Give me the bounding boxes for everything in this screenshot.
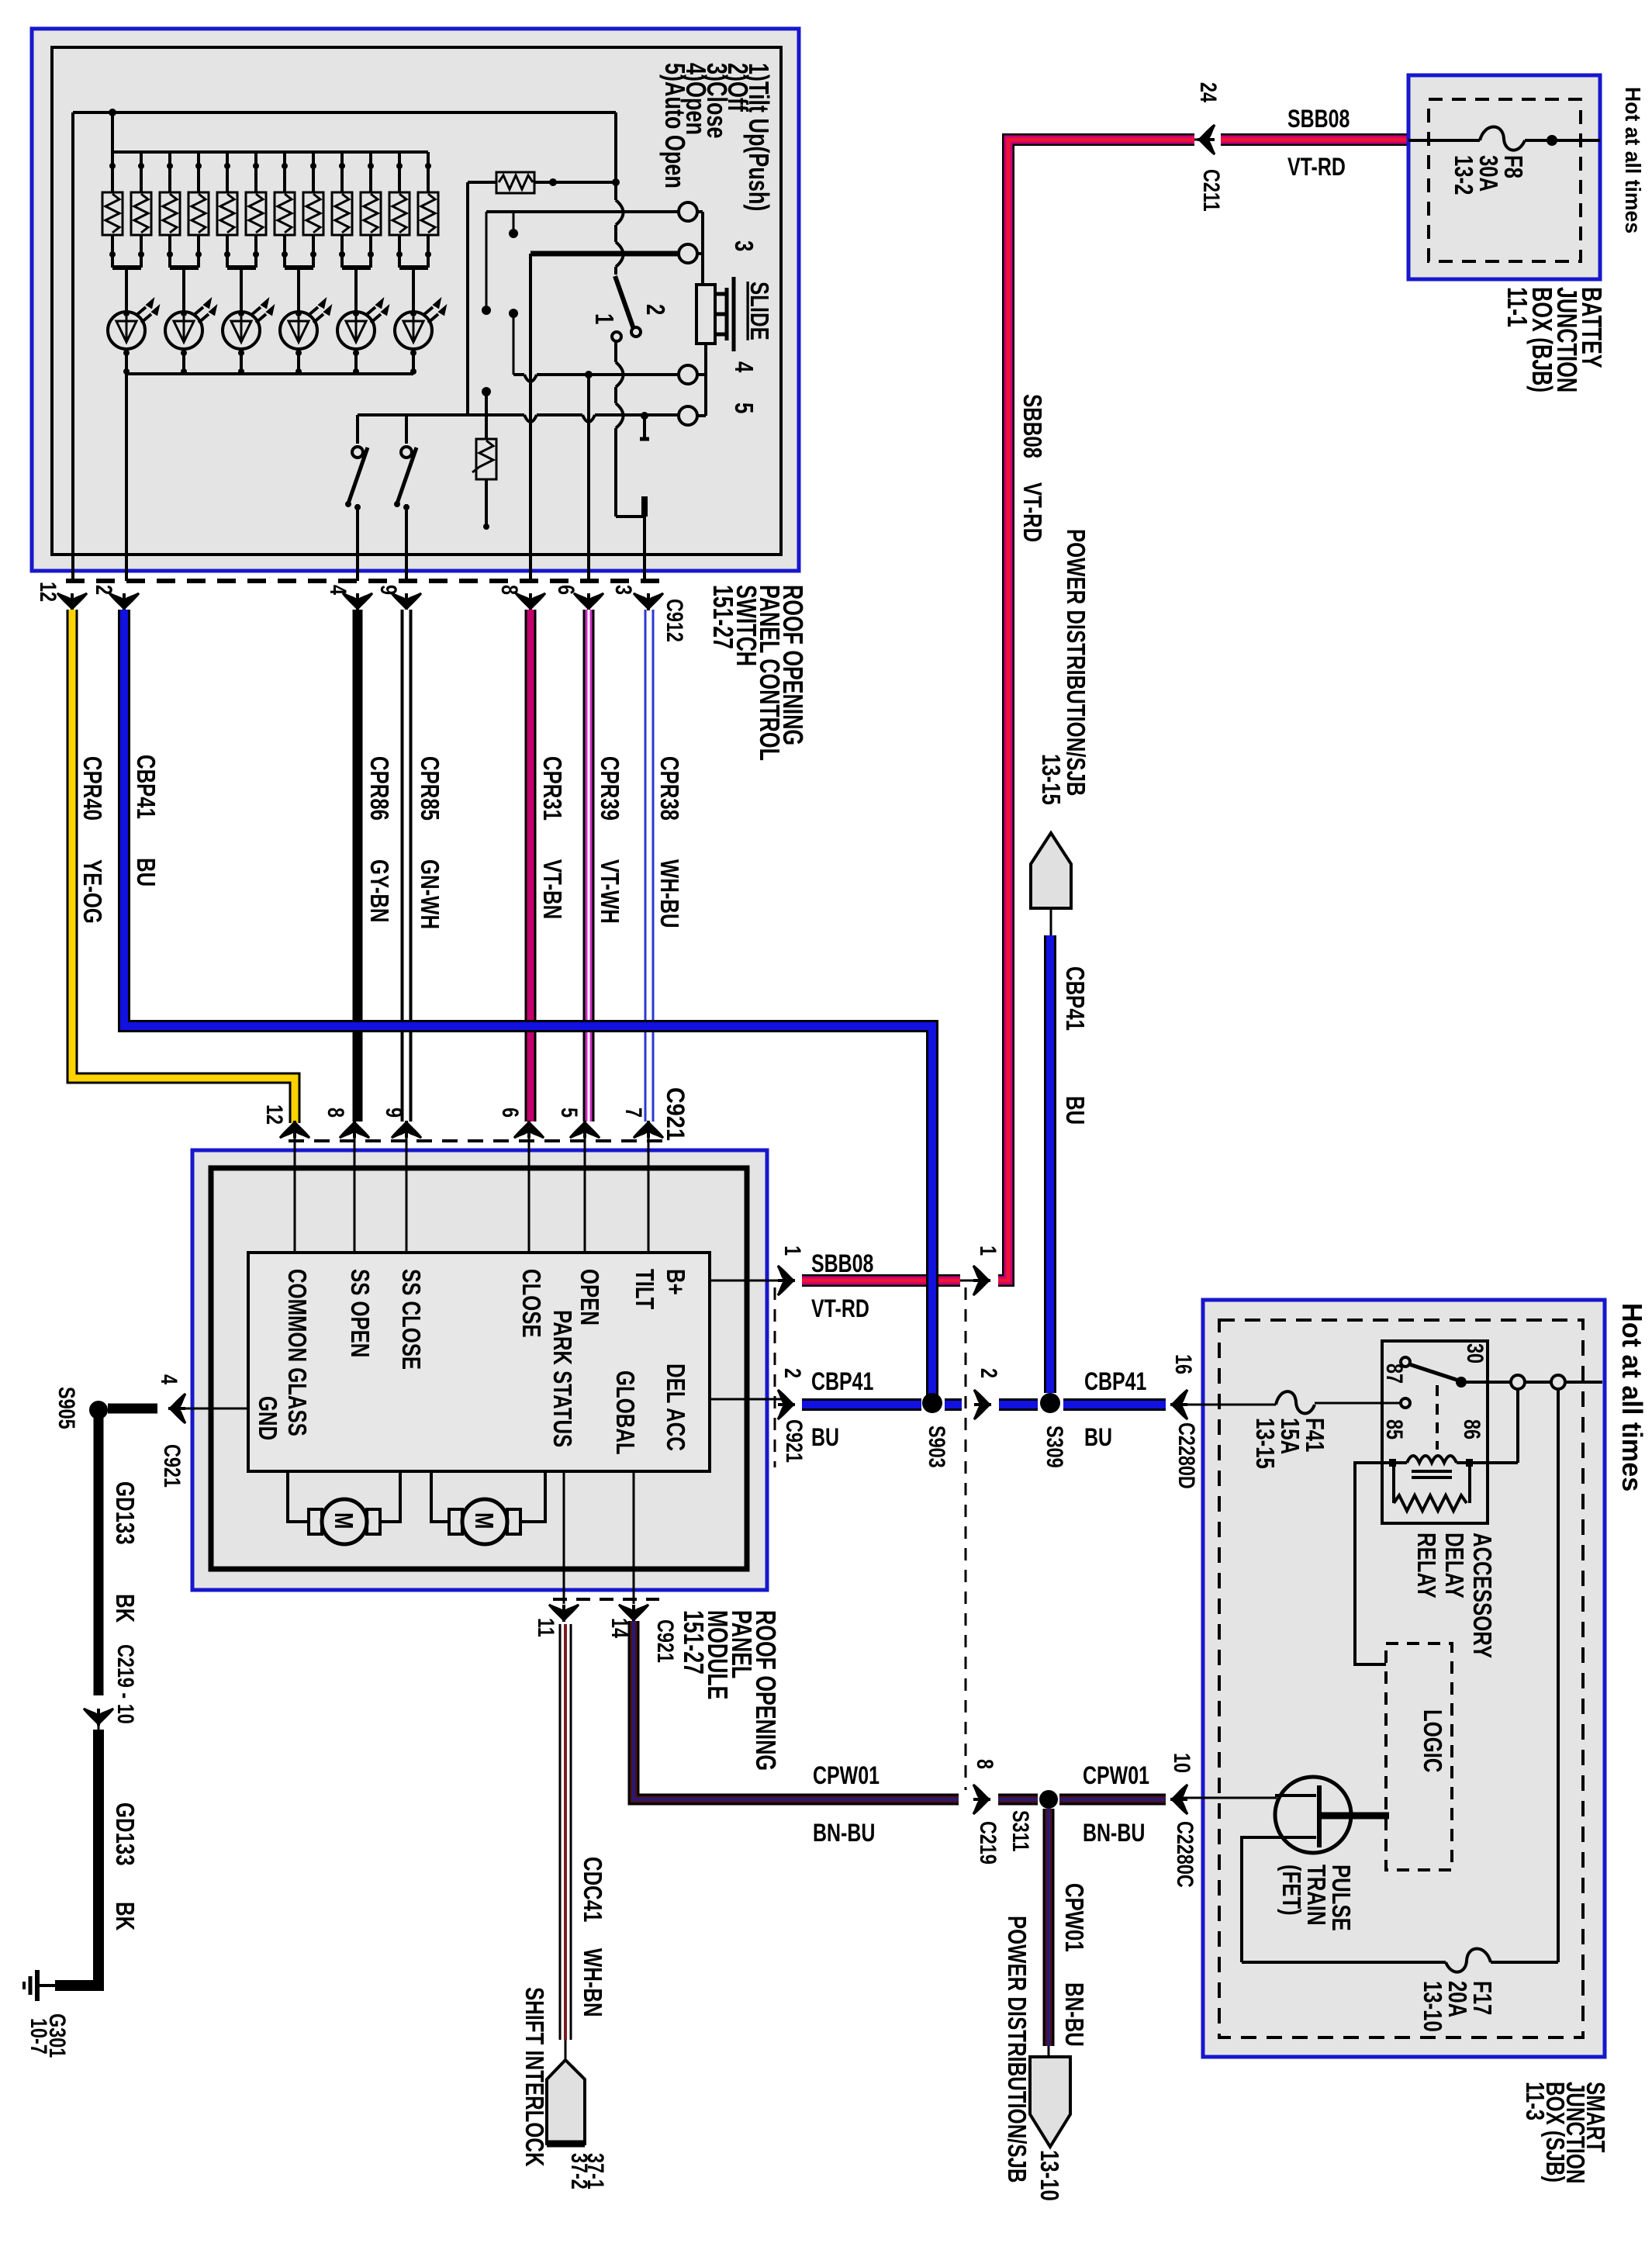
- svg-text:11: 11: [533, 1618, 558, 1637]
- connector C921 pin arrow x754: [570, 1121, 600, 1138]
- off-page arrow power distribution/SJB 13-10: [1030, 2057, 1070, 2147]
- svg-text:S905: S905: [54, 1387, 79, 1429]
- svg-text:BN-BU: BN-BU: [1083, 1820, 1145, 1847]
- svg-text:CBP41: CBP41: [1060, 966, 1089, 1031]
- svg-text:GD133: GD133: [110, 1802, 139, 1866]
- svg-text:86: 86: [1459, 1419, 1484, 1439]
- svg-text:5: 5: [556, 1108, 582, 1118]
- contact circle 3: [679, 244, 697, 263]
- wire LED3 stem: [240, 349, 243, 374]
- svg-text:7: 7: [620, 1108, 646, 1118]
- fuse F41 15A: [1182, 1391, 1401, 1413]
- svg-text:151-27: 151-27: [707, 585, 739, 649]
- svg-text:1: 1: [779, 1246, 805, 1256]
- wire top bus: [73, 111, 616, 114]
- svg-text:GY-BN: GY-BN: [365, 859, 393, 922]
- svg-text:BN-BU: BN-BU: [1059, 1982, 1088, 2047]
- svg-text:BU: BU: [131, 858, 160, 886]
- svg-text:C211: C211: [1198, 169, 1224, 212]
- svg-text:YE-OG: YE-OG: [78, 859, 106, 924]
- LED D5: [337, 300, 388, 349]
- svg-text:8: 8: [972, 1759, 997, 1769]
- svg-text:13-10: 13-10: [1418, 1981, 1446, 2032]
- wire SBB08 VT-RD to BJB: [1221, 133, 1410, 146]
- svg-text:13-2: 13-2: [1449, 155, 1477, 195]
- wire CPW01 seg2: [998, 1794, 1038, 1806]
- svg-text:S903: S903: [924, 1426, 949, 1468]
- svg-text:C921: C921: [781, 1419, 807, 1463]
- node S903: [922, 1393, 942, 1413]
- svg-text:4: 4: [325, 585, 351, 595]
- connector C921 pin arrow x524: [392, 1121, 421, 1138]
- node S311: [1039, 1790, 1058, 1809]
- svg-text:CPW01: CPW01: [813, 1762, 880, 1790]
- svg-text:CPR31: CPR31: [537, 756, 566, 821]
- wire blue feed: [125, 374, 128, 581]
- roof opening panel control switch box: [32, 29, 799, 571]
- svg-text:CPR38: CPR38: [655, 756, 683, 821]
- relay contact 87: [1401, 1398, 1410, 1408]
- svg-text:C921: C921: [662, 1087, 689, 1141]
- smart junction box SJB: [1203, 1300, 1605, 2057]
- connector C912 pin arrow x93: [57, 593, 87, 610]
- connector C921 bottom arrows: [549, 1605, 579, 1622]
- svg-text:PARK STATUS: PARK STATUS: [548, 1310, 576, 1447]
- svg-text:S309: S309: [1042, 1426, 1067, 1468]
- wire CDC41 WH-BN: [560, 1624, 571, 2060]
- relay switch arm: [1401, 1357, 1467, 1388]
- svg-text:GN-WH: GN-WH: [415, 859, 444, 929]
- node S905: [89, 1401, 108, 1419]
- connector C211: [1194, 139, 1210, 141]
- connector C912 pin arrow x160: [109, 593, 139, 610]
- connector C912 pin arrow x759: [574, 593, 603, 610]
- wire module bottom pin leads: [564, 1471, 634, 1604]
- svg-text:VT-WH: VT-WH: [595, 859, 624, 924]
- svg-text:12: 12: [35, 582, 60, 602]
- wire GD133 BK to S905: [108, 1404, 157, 1414]
- LED D3: [223, 300, 273, 349]
- svg-text:Hot at all times: Hot at all times: [1621, 87, 1646, 233]
- wire pair join 2: [170, 265, 199, 270]
- node S309: [1040, 1393, 1060, 1413]
- resistor R10: [361, 152, 381, 268]
- svg-text:VT-BN: VT-BN: [537, 859, 566, 919]
- wire CBP41 BU row seg2: [999, 1398, 1038, 1411]
- connector C912 pin arrow x524: [392, 593, 421, 610]
- svg-text:CLOSE: CLOSE: [517, 1269, 545, 1338]
- svg-text:SHIFT INTERLOCK: SHIFT INTERLOCK: [520, 1987, 548, 2167]
- svg-text:B+: B+: [661, 1269, 689, 1295]
- connector C912 pin arrow x836: [634, 593, 663, 610]
- svg-text:C912: C912: [662, 599, 687, 642]
- wire LED2 stem: [182, 349, 185, 374]
- svg-text:SBB08: SBB08: [811, 1250, 873, 1278]
- wire H483 to contact 4: [513, 373, 679, 376]
- svg-text:16: 16: [1170, 1354, 1196, 1374]
- wire LED5 stem: [354, 349, 358, 374]
- svg-text:BU: BU: [1084, 1424, 1112, 1452]
- logic block: [1386, 1643, 1452, 1870]
- svg-text:10-7: 10-7: [26, 2018, 51, 2055]
- wire V1 riser: [466, 182, 469, 415]
- svg-text:RELAY: RELAY: [1412, 1533, 1440, 1598]
- LED D1: [108, 300, 158, 349]
- wire V6 pin3 leg: [643, 517, 646, 581]
- resistor R9: [332, 152, 352, 268]
- svg-text:M: M: [469, 1512, 498, 1529]
- wire CPW01 seg3: [1059, 1794, 1166, 1806]
- wire CPR38 WH-BU: [645, 610, 653, 1121]
- svg-text:C2280C: C2280C: [1172, 1821, 1198, 1888]
- svg-text:GND: GND: [253, 1396, 282, 1440]
- svg-text:VT-RD: VT-RD: [811, 1295, 869, 1323]
- wire GND lead pin4: [180, 1408, 248, 1410]
- connector C921 pin arrow x836: [634, 1121, 663, 1138]
- svg-text:GD133: GD133: [110, 1481, 139, 1545]
- svg-text:6: 6: [553, 585, 579, 595]
- wire SBB08 VT-RD module segment: [802, 1274, 960, 1287]
- svg-text:11-3: 11-3: [1520, 2082, 1549, 2120]
- contact circle 5: [679, 406, 697, 425]
- svg-text:85: 85: [1381, 1419, 1407, 1439]
- svg-text:LOGIC: LOGIC: [1418, 1709, 1446, 1772]
- relay coil: [1389, 1456, 1473, 1477]
- svg-text:BN-BU: BN-BU: [813, 1820, 875, 1847]
- svg-text:9: 9: [375, 585, 401, 595]
- svg-text:BU: BU: [1060, 1096, 1089, 1125]
- dashed connector verticals: [774, 1287, 776, 1467]
- svg-text:C2280D: C2280D: [1173, 1422, 1199, 1489]
- wire H5 bus to contact 5: [358, 413, 679, 416]
- wire CBP41 BU row seg1: [802, 1398, 921, 1411]
- wire V5 bottom corner: [616, 515, 645, 518]
- wire LED bottom bus: [126, 372, 413, 375]
- svg-text:2: 2: [91, 585, 116, 595]
- wire GD133 BK lower: [55, 1730, 98, 1986]
- resistor R13 horizontal: [468, 172, 620, 193]
- connector C912 pin arrow x684: [516, 593, 545, 610]
- wire CPR39 VT-WH: [583, 610, 595, 1121]
- wire H3 to top contact: [486, 210, 679, 213]
- off-page arrow power distribution/SJB 13-15: [1031, 833, 1071, 908]
- svg-text:3: 3: [610, 585, 636, 595]
- LED D2: [165, 300, 216, 349]
- wire coil86 to hot: [1473, 1389, 1518, 1463]
- svg-text:C219: C219: [975, 1821, 1001, 1865]
- wire C2280C lead to FET: [1183, 1797, 1277, 1799]
- svg-text:2: 2: [641, 304, 669, 315]
- connector C921 dashed: [289, 1139, 665, 1142]
- connector C912 pin arrow x461: [343, 593, 372, 610]
- stub below contact5: [641, 412, 648, 420]
- svg-text:6: 6: [497, 1108, 523, 1118]
- svg-text:8: 8: [496, 585, 522, 595]
- wire pair join 3: [227, 265, 256, 270]
- resistor R7: [275, 152, 295, 268]
- module IC block: [248, 1253, 710, 1471]
- LED D6: [395, 300, 445, 349]
- svg-text:4: 4: [156, 1374, 181, 1384]
- motor M1: [288, 1471, 400, 1544]
- ground G301: [24, 1970, 55, 2001]
- switch arm contacts 1 2: [612, 276, 641, 341]
- switch SW-A pin4: [345, 415, 368, 581]
- svg-text:13-15: 13-15: [1250, 1418, 1279, 1469]
- off-page arrow shift interlock: [547, 2060, 585, 2144]
- wire CPW01 BN-BU pin14 run: [634, 1621, 959, 1799]
- resistor R14 vertical: [472, 387, 496, 530]
- connector C921 pin arrow x682: [514, 1121, 544, 1138]
- svg-text:C921: C921: [652, 1619, 678, 1663]
- connector C921 bottom dashed: [553, 1598, 659, 1601]
- svg-text:GLOBAL: GLOBAL: [610, 1370, 639, 1455]
- wire CBP41 BU row seg3: [1063, 1398, 1166, 1411]
- svg-text:37-2: 37-2: [566, 2153, 592, 2189]
- wire V4 pin6 leg: [587, 375, 590, 581]
- svg-text:DELAY: DELAY: [1439, 1533, 1468, 1598]
- resistor R8: [303, 152, 323, 268]
- svg-text:1: 1: [975, 1246, 1001, 1256]
- connector C219-10 arrow: [84, 1709, 113, 1726]
- svg-text:4: 4: [729, 361, 758, 373]
- wire pair join 5: [342, 265, 371, 270]
- svg-text:CPR86: CPR86: [365, 756, 393, 821]
- switch SW-B pin9: [394, 415, 416, 581]
- battery junction box BJB: [1408, 75, 1600, 279]
- svg-text:BK: BK: [110, 1902, 139, 1931]
- wire B+ lead to pin1: [710, 1280, 782, 1282]
- resistor R6: [246, 152, 266, 268]
- wire coil85 to logic: [1355, 1463, 1389, 1664]
- svg-text:1: 1: [589, 313, 618, 324]
- svg-text:WH-BN: WH-BN: [578, 1948, 607, 2017]
- svg-text:CBP41: CBP41: [811, 1368, 873, 1396]
- svg-text:CDC41: CDC41: [578, 1857, 607, 1922]
- svg-text:VT-RD: VT-RD: [1287, 154, 1346, 181]
- wire GD133 BK upper: [94, 1415, 104, 1695]
- svg-text:M: M: [329, 1512, 358, 1529]
- resistor R3: [160, 152, 180, 268]
- wire DEL ACC lead pin2: [710, 1398, 782, 1401]
- svg-text:S311: S311: [1007, 1810, 1033, 1851]
- contact circle 4: [679, 365, 697, 384]
- svg-text:CBP41: CBP41: [1084, 1368, 1146, 1396]
- svg-text:13-10: 13-10: [1035, 2150, 1063, 2201]
- svg-text:DEL ACC: DEL ACC: [661, 1363, 689, 1451]
- wire jumpers at contacts: [697, 212, 703, 285]
- wire SBB08 VT-RD main run: [998, 140, 1194, 1280]
- wire CPW01 BN-BU S311 down: [1043, 1809, 1055, 2046]
- svg-text:COMMON GLASS: COMMON GLASS: [282, 1269, 311, 1436]
- resistor R2: [131, 152, 151, 268]
- connector C912 dashed: [66, 579, 665, 583]
- svg-text:9: 9: [381, 1108, 406, 1118]
- resistor R4: [188, 152, 209, 268]
- svg-text:BU: BU: [811, 1424, 839, 1452]
- connector C921 pin arrow x380: [280, 1121, 309, 1138]
- svg-text:ACCESSORY: ACCESSORY: [1467, 1533, 1496, 1658]
- wire V2 stub: [486, 212, 488, 306]
- svg-text:TILT: TILT: [630, 1269, 658, 1309]
- svg-text:CBP41: CBP41: [131, 755, 160, 819]
- SLIDE selector: [696, 277, 734, 351]
- fuse F17 20A: [1242, 1948, 1558, 1972]
- svg-text:SBB08: SBB08: [1018, 394, 1046, 458]
- svg-text:POWER DISTRIBUTION/SJB: POWER DISTRIBUTION/SJB: [1002, 1916, 1031, 2183]
- wire CPR86 GY-BN: [353, 610, 363, 1121]
- wire V5 main vertical: [614, 112, 617, 517]
- svg-text:CPR39: CPR39: [595, 756, 624, 821]
- wire pair join 6: [399, 265, 428, 270]
- svg-text:2: 2: [976, 1368, 1001, 1378]
- svg-text:Hot at all times: Hot at all times: [1616, 1303, 1647, 1491]
- svg-text:10: 10: [1169, 1753, 1194, 1773]
- wire pair join 4: [285, 265, 313, 270]
- svg-text:CPW01: CPW01: [1083, 1762, 1149, 1790]
- wire ladder feed: [111, 112, 114, 152]
- svg-text:30: 30: [1462, 1343, 1488, 1363]
- wire CBP41 BU pentagon feed: [1044, 935, 1056, 1393]
- wire LED1 stem: [125, 349, 128, 374]
- svg-text:12: 12: [261, 1104, 287, 1125]
- svg-text:OPEN: OPEN: [575, 1269, 603, 1325]
- svg-text:BK: BK: [110, 1594, 139, 1623]
- svg-text:C921: C921: [159, 1444, 185, 1488]
- motor M2: [431, 1471, 545, 1544]
- wire yellow feed: [71, 112, 74, 581]
- svg-text:SLIDE: SLIDE: [745, 282, 773, 340]
- node B stub to H483: [509, 309, 518, 318]
- svg-text:8: 8: [323, 1108, 348, 1118]
- svg-text:151-27: 151-27: [678, 1610, 710, 1674]
- wire CBP41 BU main run: [124, 610, 932, 1396]
- resistor R1: [102, 152, 123, 268]
- contact circle top: [679, 202, 697, 221]
- svg-text:24: 24: [1195, 82, 1221, 102]
- wire relay 30 hot feed: [1461, 1381, 1602, 1384]
- svg-text:WH-BU: WH-BU: [655, 859, 683, 928]
- relay resistor: [1394, 1467, 1470, 1511]
- wire module top pin leads: [295, 1134, 648, 1253]
- svg-text:SS CLOSE: SS CLOSE: [396, 1269, 425, 1370]
- wire CPR40 YE-OG: [72, 610, 295, 1123]
- wire LED4 stem: [297, 349, 300, 374]
- wire V3 pin8 leg: [529, 254, 532, 581]
- transistor FET: [1242, 1777, 1389, 1962]
- resistor R5: [217, 152, 237, 268]
- svg-text:13-15: 13-15: [1036, 754, 1065, 805]
- svg-text:5)Auto Open: 5)Auto Open: [659, 63, 691, 188]
- svg-text:CPR40: CPR40: [78, 756, 106, 821]
- resistor R12: [418, 152, 438, 268]
- wire CPR85 GN-WH: [401, 610, 413, 1121]
- svg-text:SBB08: SBB08: [1287, 105, 1350, 133]
- resistor R11: [389, 152, 410, 268]
- connector C921 pin arrow x457: [340, 1121, 369, 1138]
- svg-text:VT-RD: VT-RD: [1018, 482, 1046, 542]
- svg-text:SS OPEN: SS OPEN: [345, 1269, 374, 1357]
- svg-text:2: 2: [779, 1368, 805, 1378]
- svg-text:C219 - 10: C219 - 10: [112, 1644, 138, 1724]
- wire pair join 1: [112, 265, 141, 270]
- relay actuator dashed: [1436, 1385, 1439, 1450]
- svg-text:CPR85: CPR85: [415, 756, 444, 821]
- node A stub: [513, 212, 515, 233]
- wire H4 bold to contact 3: [531, 251, 679, 257]
- svg-text:5: 5: [729, 403, 758, 413]
- wire hot to F17: [1557, 1389, 1560, 1962]
- wire CPR31 VT-BN: [525, 610, 537, 1121]
- accessory delay relay: [1382, 1341, 1488, 1523]
- wire LED6 stem: [412, 349, 415, 374]
- roof opening panel module box: [192, 1150, 767, 1590]
- LED D4: [280, 300, 330, 349]
- fuse F8 30A: [1408, 126, 1600, 150]
- wire ladder top bus: [112, 150, 428, 154]
- svg-text:CPW01: CPW01: [1059, 1883, 1088, 1952]
- svg-text:3: 3: [729, 240, 758, 251]
- svg-text:11-1: 11-1: [1502, 287, 1533, 327]
- svg-text:(FET): (FET): [1277, 1865, 1305, 1916]
